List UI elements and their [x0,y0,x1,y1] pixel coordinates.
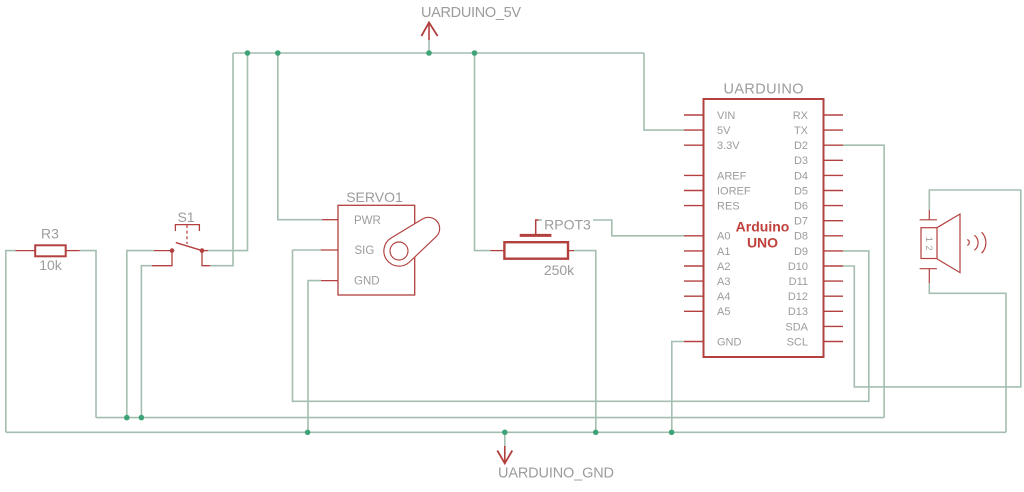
potentiometer RPOT3 body [504,242,568,259]
svg-text:VIN: VIN [717,110,735,122]
svg-text:D11: D11 [789,276,808,288]
wire button net horizontal [96,417,884,419]
svg-text:AREF: AREF [717,170,747,182]
speaker sound waves [967,232,986,253]
svg-text:GND: GND [717,336,742,348]
svg-text:250k: 250k [544,262,575,278]
junction servo GND net [305,430,311,436]
wire servo SIG stub link [293,249,322,251]
svg-text:D9: D9 [794,246,808,258]
svg-text:PWR: PWR [354,215,381,227]
UARDUINO left pin stubs [684,115,704,342]
svg-text:SCL: SCL [787,336,808,348]
potentiometer RPOT3 leads [491,250,575,252]
wire UARDUINO GND pin to bus [672,342,684,433]
svg-text:RES: RES [717,201,740,213]
wire bus to switch right contact [208,53,248,251]
svg-text:D12: D12 [788,291,808,303]
junction RPOT3 left net [472,50,478,56]
svg-text:Arduino: Arduino [736,219,790,235]
junction servo PWR net [275,50,281,56]
svg-text:UARDUINO_5V: UARDUINO_5V [421,5,521,21]
svg-text:TX: TX [794,125,809,137]
svg-text:1: 1 [924,237,934,242]
svg-text:SIG: SIG [355,245,375,257]
junction UARDUINO GND net [669,430,675,436]
switch S1 actuator bracket [175,225,199,231]
svg-text:A3: A3 [717,276,730,288]
svg-text:SDA: SDA [785,321,808,333]
wire bus to servo PWR [278,53,322,220]
svg-text:IOREF: IOREF [717,185,751,197]
svg-text:SERVO1: SERVO1 [346,189,403,205]
UARDUINO left pin labels [717,110,751,349]
svg-text:A1: A1 [717,246,730,258]
switch S1 pin leads [152,251,210,266]
wire servo GND to bus [308,281,321,433]
svg-text:A2: A2 [717,261,730,273]
svg-text:A0: A0 [717,231,730,243]
junction GND symbol [502,430,508,436]
wire riser to switch left contact [127,251,154,418]
wire bus to UARDUINO 5V pin [644,53,684,130]
wire 5V symbol stem [428,40,430,53]
svg-text:5V: 5V [717,125,731,137]
svg-text:2: 2 [924,245,934,250]
servo horn [384,217,440,266]
svg-text:A5: A5 [717,306,730,318]
resistor R3 body [35,245,65,256]
wire R3 right down [80,251,96,418]
wire button net to D2 [843,145,884,417]
switch S1 left contact [170,248,175,253]
resistor R3 leads [16,250,80,252]
power symbol UARDUINO_GND arrow [497,446,512,463]
junction switch right contact net [245,50,251,56]
wire bus left drop to switch lower-right pin [210,53,233,266]
svg-text:D10: D10 [788,261,808,273]
wire servo SIG to D9 [293,250,869,401]
svg-text:D13: D13 [788,306,808,318]
svg-text:UARDUINO_GND: UARDUINO_GND [498,466,614,482]
svg-text:10k: 10k [39,257,63,273]
svg-text:D2: D2 [794,140,808,152]
svg-text:D6: D6 [794,201,808,213]
svg-text:D7: D7 [794,216,808,228]
junction RPOT3 right net [593,430,599,436]
svg-text:RPOT3: RPOT3 [544,216,591,232]
potentiometer RPOT3 wiper [520,220,552,235]
svg-text:R3: R3 [41,226,59,242]
UARDUINO part name Arduino UNO [736,219,790,251]
svg-text:S1: S1 [177,209,194,225]
wire D10 to speaker top [843,190,1021,387]
UARDUINO right pin stubs [824,115,844,342]
wire GND symbol stem [504,432,506,446]
svg-text:UARDUINO: UARDUINO [724,82,804,98]
power symbol UARDUINO_5V arrow [421,22,437,40]
IC UARDUINO body [704,99,824,357]
servo SERVO1 pin stubs [321,220,338,281]
switch S1 blade [176,243,202,251]
wire R3 left to GND bus [6,251,16,433]
junction 5V symbol [426,50,432,56]
switch S1 right contact [200,248,205,253]
speaker L2 body [921,228,937,259]
svg-text:D5: D5 [794,185,808,197]
wire RPOT3 right to bus [574,251,596,433]
speaker pin ticks [920,210,937,283]
wire GND bus [6,431,1006,433]
servo SERVO1 body [338,205,415,295]
junction switch lower-left net [139,415,145,421]
svg-text:RX: RX [793,110,809,122]
svg-text:A4: A4 [717,291,730,303]
wire speaker bottom to GND bus [929,283,1006,432]
wire RPOT3 wiper to A0 [539,220,685,236]
wire bus to RPOT3 left [475,53,491,251]
svg-text:UNO: UNO [747,235,778,251]
wire riser to switch lower-left pin [141,266,152,418]
label RPOT3 [542,216,593,232]
speaker pin numbers 1 2 [924,237,934,251]
UARDUINO right pin labels [785,110,808,349]
svg-text:D3: D3 [794,155,808,167]
svg-text:D4: D4 [794,170,808,182]
wire 5V top bus [233,52,644,54]
svg-text:3.3V: 3.3V [717,140,740,152]
speaker L2 cone [937,214,960,273]
switch S1 actuator dashed link [186,225,188,244]
svg-text:GND: GND [354,275,380,287]
svg-text:D8: D8 [794,231,808,243]
junction switch left contact net [124,415,130,421]
